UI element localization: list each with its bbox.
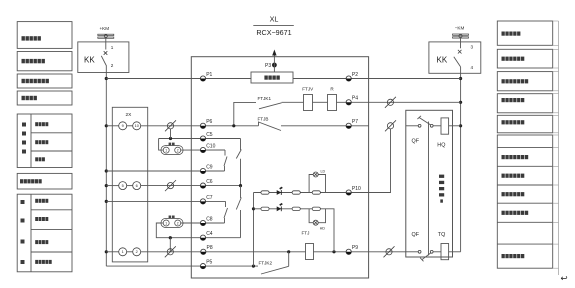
wire tap P7 line to P10 line	[369, 129, 391, 193]
node P7	[346, 119, 358, 128]
contact FTJB	[258, 116, 282, 130]
wire HQ to bus	[449, 125, 461, 127]
svg-text:C9: C9	[206, 164, 213, 170]
terminal slash on C6 line	[165, 180, 176, 191]
wire C10 line	[181, 149, 225, 151]
left legend group 合闸回路 (手动合闸/遥控合闸/重合闸)	[17, 114, 72, 168]
wire C6 line from bus through 2X 5-6	[106, 185, 240, 187]
wire FTJK1 branch riser	[234, 102, 256, 125]
node C10	[200, 143, 215, 152]
terminal 9	[119, 122, 127, 130]
relay coil FTJV	[302, 87, 314, 111]
junction dot FTJK2 riser	[287, 250, 290, 253]
wire P6 line from bus through 2X 9-10	[106, 125, 258, 127]
contact QF (top, closing)	[412, 116, 434, 145]
wire fuse to KK box	[105, 38, 107, 49]
node P4	[346, 96, 358, 105]
svg-text:KK: KK	[84, 56, 95, 65]
breaker mechanism box	[406, 110, 453, 257]
right legend table row 控制负电源	[497, 21, 552, 45]
wire FTJK1 to FTJV	[282, 101, 304, 103]
svg-text:P10: P10	[352, 186, 361, 192]
wire R to P4 and out to bus	[337, 101, 461, 103]
wire C8 line	[181, 222, 225, 224]
svg-text:QF: QF	[412, 232, 420, 238]
relay coil FTJ	[302, 231, 314, 260]
node P1	[200, 72, 212, 81]
title XL / RCX-9671	[253, 15, 293, 37]
resistor R1b	[292, 191, 300, 194]
svg-text:10: 10	[135, 124, 139, 128]
terminal box 2X	[112, 107, 147, 262]
wire right bus (-KM vertical)	[460, 73, 462, 252]
right legend lower table rows	[497, 135, 552, 268]
svg-text:↩: ↩	[561, 273, 569, 283]
coil TQ	[438, 232, 449, 260]
connector plug XB (C8-C4)	[161, 216, 183, 228]
svg-text:FTJK2: FTJK2	[259, 261, 273, 266]
node C4	[200, 231, 212, 240]
wire TQ to bus	[449, 251, 461, 253]
junction dots on right bus	[459, 77, 462, 128]
left legend table row 防跳回路	[17, 91, 72, 105]
right legend table row 防跳继负电源	[497, 94, 552, 113]
wire C9 line from bus	[106, 170, 224, 172]
svg-text:1: 1	[165, 149, 167, 153]
node P10	[346, 186, 361, 195]
left legend table row 开关控制正极	[17, 52, 72, 71]
svg-text:RCX−9671: RCX−9671	[256, 28, 291, 37]
svg-text:C6: C6	[206, 179, 213, 185]
diode V2	[277, 206, 282, 211]
svg-text:9: 9	[122, 124, 124, 128]
svg-text:1: 1	[165, 221, 167, 225]
wire branch riser	[253, 193, 255, 267]
resistor R2a	[261, 207, 269, 210]
connector plug XB (C5-C10)	[161, 143, 183, 155]
svg-text:1: 1	[111, 45, 114, 50]
svg-text:FTJB: FTJB	[258, 116, 269, 121]
svg-text:HD: HD	[320, 226, 326, 230]
wire HD branch	[254, 209, 335, 252]
node C5	[200, 132, 212, 141]
wire FTJK2 riser to P8 line	[288, 252, 290, 266]
wire P7 into box to QF top	[406, 125, 419, 127]
node C8	[200, 216, 212, 225]
svg-text:FTJK1: FTJK1	[258, 96, 272, 101]
svg-text:2: 2	[111, 63, 114, 68]
terminal slash on P6 line	[165, 120, 176, 131]
node C7	[200, 195, 212, 204]
terminal 2	[133, 248, 141, 256]
wire tap C4 line to P8 line	[169, 238, 171, 252]
terminal slash on P9 line	[384, 246, 395, 257]
svg-text:C8: C8	[206, 216, 213, 222]
wire left bus (+KM vertical)	[105, 73, 107, 267]
wire QF to HQ coil	[433, 125, 441, 127]
resistor R1a	[261, 191, 269, 194]
svg-text:C7: C7	[206, 195, 213, 201]
wire connector to C4 line (U-jog)	[156, 223, 240, 238]
wire FTJB to P7	[281, 125, 369, 127]
terminal 6	[133, 182, 141, 190]
svg-text:P9: P9	[352, 245, 358, 251]
coil HQ	[437, 118, 448, 149]
svg-text:C5: C5	[206, 132, 213, 138]
svg-text:1: 1	[122, 250, 124, 254]
svg-text:P4: P4	[352, 96, 358, 102]
left legend table row 保护工作正电源	[17, 74, 72, 88]
wire P8 line from bus through 2X 1-2	[106, 251, 305, 253]
terminal slash on P8 line	[165, 246, 176, 257]
svg-text:LD: LD	[321, 169, 326, 173]
resistor R	[328, 87, 337, 111]
svg-text:XL: XL	[270, 15, 279, 24]
junction dot C5 tap	[169, 137, 172, 140]
resistor R2c	[312, 207, 320, 210]
right legend table row 开关控制负极	[497, 49, 552, 68]
svg-text:FTJV: FTJV	[302, 87, 314, 92]
svg-text:FTJ: FTJ	[302, 231, 310, 236]
wire connector to C5 line (U-jog)	[159, 139, 164, 151]
wire P2 line	[293, 78, 461, 80]
terminal slash on P7 line	[385, 120, 396, 131]
node P6	[200, 119, 212, 128]
svg-text:TQ: TQ	[438, 232, 446, 238]
contact QF (bottom, tripping)	[412, 232, 434, 261]
wire fuse to KK box	[460, 38, 462, 48]
svg-text:P8: P8	[207, 245, 213, 251]
node P2	[346, 72, 358, 81]
svg-text:5: 5	[122, 184, 124, 188]
svg-text:2: 2	[177, 221, 179, 225]
svg-text:3: 3	[471, 45, 474, 50]
wire FTJV to R	[313, 101, 328, 103]
svg-text:2: 2	[136, 250, 138, 254]
junction dot branch riser on P5 line	[252, 265, 255, 268]
resistor R1c	[312, 191, 320, 194]
fuse -KM	[453, 26, 469, 39]
svg-text:C10: C10	[206, 143, 215, 149]
left legend table row 遥控电源监视	[17, 173, 72, 189]
terminal 5	[119, 182, 127, 190]
svg-text:+KM: +KM	[100, 26, 110, 31]
junction dot C4 tap	[169, 236, 172, 239]
right legend table row 开关合闸线圈	[497, 115, 552, 133]
protection device box RCX-9671	[191, 57, 368, 278]
svg-text:6: 6	[136, 184, 138, 188]
svg-text:P6: P6	[206, 119, 212, 125]
left legend group 跳闸回路 (保护跳闸/遥控跳闸/手动跳闸/跳闸自保持)	[17, 194, 72, 272]
resistor R2b	[292, 207, 300, 210]
right legend table row 保护工作负电源	[497, 72, 552, 91]
svg-text:P5: P5	[206, 260, 212, 266]
terminal 10	[133, 122, 141, 130]
svg-text:2X: 2X	[126, 112, 133, 118]
lamp HD loop	[309, 209, 325, 223]
terminal slash on P4 line	[385, 97, 396, 108]
svg-text:P1: P1	[206, 72, 212, 78]
svg-text:2: 2	[177, 149, 179, 153]
svg-text:HQ: HQ	[437, 143, 445, 149]
node C6	[200, 179, 212, 188]
page margin line right	[553, 21, 559, 275]
wire P9 into box to QF bottom	[406, 251, 419, 253]
lamp LD	[313, 169, 325, 177]
contact FTJK1	[258, 96, 282, 109]
junction dot FTJK1 tap	[232, 124, 235, 127]
switch KK (right) pins 3-4	[429, 42, 481, 73]
left legend table row 控制正电源	[17, 22, 72, 49]
wire P10 branch (LD)	[254, 192, 369, 194]
svg-text:KK: KK	[437, 56, 448, 65]
terminal 1	[119, 248, 127, 256]
contact C10-C9	[224, 150, 227, 171]
diode V1	[277, 190, 282, 195]
node C9	[200, 164, 212, 173]
switch KK (left) pins 1-2	[78, 42, 129, 73]
wire C7 line from bus	[106, 200, 225, 202]
wire tap P6 line to C5 line	[170, 129, 172, 139]
svg-text:C4: C4	[206, 231, 213, 237]
node P9	[346, 245, 358, 254]
wire P5 line from bus corner	[105, 265, 107, 267]
wire P1 line	[106, 78, 251, 80]
fuse +KM	[98, 26, 114, 38]
svg-text:P2: P2	[352, 72, 358, 78]
lamp HD	[313, 220, 325, 230]
svg-text:P7: P7	[352, 119, 358, 125]
contact FTJK2	[259, 261, 289, 274]
wire C5 line	[159, 138, 241, 140]
linkage QF	[428, 122, 430, 256]
svg-text:QF: QF	[412, 139, 420, 145]
wire P3 stub to power box	[273, 65, 275, 72]
junction dots on left bus	[105, 77, 108, 254]
node P5	[200, 260, 212, 269]
wire FTJ to P9 and out	[314, 251, 406, 253]
node P8	[201, 245, 213, 254]
wire QF to TQ coil	[433, 251, 441, 253]
svg-text:−KM: −KM	[455, 26, 465, 31]
contact C6-C4 on riser	[236, 186, 241, 238]
contact C7-C8	[224, 201, 228, 223]
vertical label 断路器弹簧操作机构	[439, 175, 444, 203]
contact C5-C6 on riser	[236, 139, 241, 186]
svg-text:P3: P3	[265, 63, 271, 69]
junction dot branch2	[252, 207, 255, 210]
junction dot HD branch	[332, 250, 335, 253]
svg-text:4: 4	[471, 65, 474, 70]
power supply box 保护电源	[251, 72, 293, 83]
node P3 with arrow	[265, 50, 277, 70]
lamp LD loop	[309, 175, 325, 193]
junction dot C6 riser	[239, 184, 242, 187]
